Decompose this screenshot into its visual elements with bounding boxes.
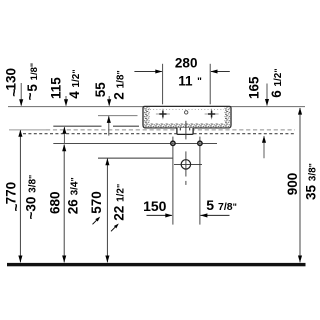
drain circle	[181, 160, 190, 169]
dim 115 up arrow	[63, 127, 65, 143]
overflow hole	[185, 111, 188, 114]
dashed line A	[9, 129, 46, 131]
svg-text:~30 3/8": ~30 3/8"	[24, 175, 39, 220]
dim 165 down arrow	[266, 84, 268, 106]
svg-text:55: 55	[93, 82, 108, 98]
dim 570 vertical	[106, 159, 108, 263]
dim 55 down arrow	[108, 96, 110, 106]
dim 115 down arrow	[65, 96, 67, 106]
svg-text:570: 570	[89, 191, 104, 214]
svg-text:115: 115	[49, 77, 64, 99]
drain crosshair horizontal	[174, 163, 202, 165]
dim 150 line right	[200, 214, 229, 216]
svg-text:4 1/2": 4 1/2"	[67, 69, 82, 98]
dim 150 line left	[147, 214, 172, 216]
280 extension right	[209, 64, 211, 105]
115-target line	[53, 125, 101, 127]
floor line	[7, 263, 306, 266]
drain centerline vertical	[185, 121, 187, 140]
dim 770 vertical	[19, 130, 21, 262]
svg-text:11": 11"	[178, 73, 202, 88]
dim 900 vertical	[299, 108, 301, 262]
leader arrow 570	[93, 220, 97, 224]
faucet cross right	[205, 109, 219, 120]
svg-text:770: 770	[3, 182, 18, 205]
dim 55 up arrow	[108, 116, 110, 135]
drain tab	[177, 128, 193, 134]
svg-text:150: 150	[143, 198, 167, 214]
basin stipple bottom	[150, 123, 225, 127]
wall line	[8, 106, 305, 108]
basin stipple left	[144, 107, 150, 127]
570-target line	[98, 157, 172, 159]
dim 165 up arrow	[263, 136, 265, 158]
280 dim line right	[211, 71, 230, 73]
svg-text:35 3/8": 35 3/8"	[304, 163, 319, 200]
basin inner rim dotted line	[150, 108, 224, 110]
svg-text:2 1/8": 2 1/8"	[111, 70, 126, 99]
bolt right	[198, 141, 202, 145]
svg-text:5 7/8": 5 7/8"	[206, 197, 237, 213]
dashed line B	[23, 133, 176, 135]
svg-text:680: 680	[47, 191, 62, 214]
dim 680 vertical	[63, 145, 65, 263]
svg-text:22 1/2": 22 1/2"	[111, 184, 126, 221]
280 dim line left	[134, 71, 161, 73]
bolt centerline	[53, 142, 217, 144]
280 extension left	[162, 64, 164, 105]
svg-text:5 1/8": 5 1/8"	[25, 63, 40, 92]
svg-text:~: ~	[6, 89, 21, 97]
55-target line	[98, 115, 138, 117]
svg-text:~: ~	[9, 204, 24, 212]
bolt extension verticals	[172, 137, 174, 225]
svg-text:130: 130	[3, 68, 18, 91]
faucet cross left	[156, 109, 170, 120]
svg-text:26 3/4": 26 3/4"	[66, 177, 81, 214]
svg-text:165: 165	[247, 76, 262, 99]
basin body	[143, 106, 231, 128]
dim 130 down arrow	[20, 83, 22, 106]
svg-text:280: 280	[175, 56, 198, 71]
bolt left	[171, 141, 175, 145]
leader arrow 22 1/2	[111, 227, 115, 231]
svg-text:900: 900	[285, 173, 300, 196]
svg-text:6 1/2": 6 1/2"	[269, 68, 284, 97]
basin stipple right	[225, 107, 231, 127]
svg-text:~: ~	[22, 92, 37, 100]
